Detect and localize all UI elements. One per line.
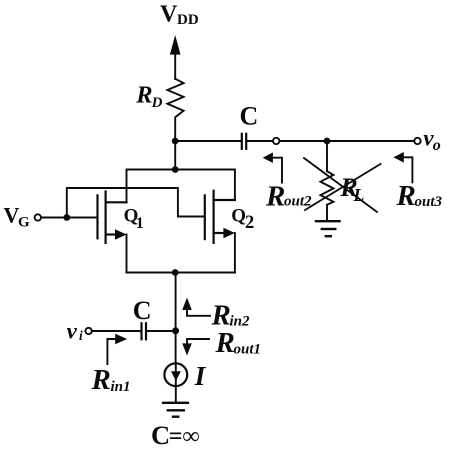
ground RL	[316, 221, 340, 236]
svg-text:G: G	[18, 215, 30, 231]
svg-text:=∞: =∞	[169, 424, 200, 450]
wire input node to current source	[175, 331, 177, 364]
cross-out line 2 (RL removed)	[305, 164, 381, 210]
svg-text:i: i	[79, 328, 83, 343]
svg-text:R: R	[396, 180, 416, 212]
wire drain rail (Q1 drain riser, rail, Q2 drain riser)	[127, 170, 235, 203]
svg-text:D: D	[151, 95, 163, 111]
label Rin2	[211, 299, 251, 331]
svg-text:1: 1	[136, 215, 144, 232]
svg-text:2: 2	[245, 213, 254, 233]
wire Q1 source down	[126, 235, 128, 273]
wire capacitor to terminal	[247, 140, 273, 142]
label RL	[339, 173, 364, 205]
current source I	[164, 363, 187, 386]
svg-text:R: R	[215, 327, 235, 359]
terminal circle (Rout2 port)	[273, 138, 279, 144]
svg-text:v: v	[67, 318, 78, 343]
arrow Rin1	[107, 334, 127, 364]
svg-text:I: I	[194, 361, 207, 391]
svg-text:in1: in1	[111, 379, 131, 395]
label Q2	[231, 205, 254, 233]
svg-text:Q: Q	[231, 205, 246, 226]
wire node to output capacitor	[175, 140, 240, 142]
svg-text:DD: DD	[177, 12, 199, 28]
wire vi to capacitor	[92, 330, 140, 332]
wire terminal to vo	[280, 140, 415, 142]
label VG	[4, 202, 31, 230]
node input	[172, 327, 179, 334]
node VG	[63, 214, 70, 221]
label Rout2	[265, 181, 312, 213]
svg-text:C: C	[151, 420, 170, 450]
svg-text:R: R	[91, 364, 111, 396]
ground (current source)	[163, 403, 188, 417]
label Rin1	[91, 364, 131, 396]
wire gate coupling (VG riser to Q2 gate)	[67, 188, 205, 218]
wire VG to Q1 gate	[41, 217, 97, 219]
node bottom rail	[172, 269, 179, 276]
arrow Rout1	[182, 339, 209, 356]
node drain	[172, 138, 179, 145]
svg-text:C: C	[240, 102, 259, 131]
wire current source to ground	[175, 386, 177, 402]
arrow Rout3	[394, 152, 413, 182]
label vo	[423, 126, 440, 154]
terminal vi	[85, 328, 91, 334]
label RD	[135, 82, 162, 111]
svg-text:V: V	[160, 2, 178, 28]
svg-text:R: R	[265, 181, 285, 213]
svg-text:R: R	[135, 82, 152, 109]
svg-text:o: o	[433, 137, 441, 154]
label C=infinity	[151, 420, 200, 450]
node top rail	[172, 166, 179, 173]
resistor RD	[167, 79, 183, 141]
svg-text:out1: out1	[234, 342, 262, 358]
capacitor C input	[142, 323, 147, 339]
label I	[194, 361, 207, 391]
svg-text:out2: out2	[284, 194, 312, 210]
label Q1	[124, 205, 144, 232]
svg-text:C: C	[133, 296, 152, 325]
wire VDD arrow	[170, 35, 181, 79]
wire RL stem bottom	[326, 205, 328, 221]
terminal vo	[414, 138, 420, 144]
resistor RL	[321, 171, 334, 205]
label vi	[67, 318, 83, 343]
label VDD	[160, 2, 199, 28]
wire rail to input node	[175, 273, 177, 331]
cross-out line 1 (RL removed)	[304, 158, 377, 212]
svg-text:out3: out3	[415, 194, 443, 210]
wire node to top rail	[174, 141, 176, 170]
wire RL stem top	[326, 141, 328, 171]
wire input capacitor to node	[147, 330, 175, 332]
terminal VG	[35, 214, 41, 220]
label Rout3	[396, 180, 443, 212]
transistor Q1	[98, 192, 127, 243]
label Rout1	[215, 327, 262, 359]
wire bottom rail	[127, 272, 235, 274]
label C input	[133, 296, 152, 325]
node RL top	[324, 138, 331, 145]
wire Q2 source down	[234, 233, 236, 273]
transistor Q2	[205, 191, 235, 243]
svg-text:L: L	[352, 185, 364, 205]
capacitor C output	[242, 134, 246, 149]
arrow Rin2	[182, 298, 210, 316]
arrow Rout2	[263, 152, 282, 182]
label C output	[240, 102, 259, 131]
